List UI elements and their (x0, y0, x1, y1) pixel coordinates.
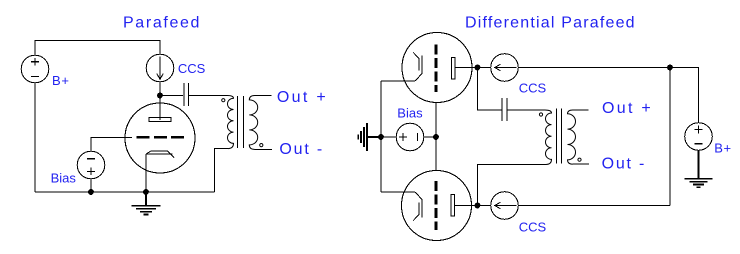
svg-text:Differential Parafeed: Differential Parafeed (465, 15, 636, 32)
V3 envelope (402, 171, 472, 241)
wire: V3 plate to CCS node (455, 205, 491, 207)
svg-text:Bias: Bias (51, 171, 77, 186)
transformer T2 (539, 109, 581, 165)
wire: bias source to grid rail (424, 136, 436, 138)
svg-text:Bias: Bias (397, 106, 423, 121)
V2 grid (dashed) (435, 45, 438, 93)
T1 core (238, 96, 244, 148)
V3 cathode (413, 192, 422, 221)
wire: grid rail junction to V3 (435, 137, 437, 171)
wire: V3 cathode lead to left rail (381, 191, 415, 193)
svg-text:Out +: Out + (277, 89, 328, 106)
T2 primary phase dot (539, 113, 542, 116)
wire: CCS to plate of V1 (159, 82, 161, 120)
T1 secondary winding (249, 96, 257, 150)
V3 grid (dashed) (435, 181, 438, 230)
ground (left circuit) (132, 192, 161, 215)
current source CCS (left) (146, 54, 174, 82)
voltage source Bias (right) (396, 123, 424, 151)
junction: V3 plate node (475, 203, 480, 208)
junction: bias/bottom rail (89, 190, 94, 195)
wire: grid rail V2 to junction (435, 103, 437, 137)
svg-text:Out -: Out - (602, 155, 647, 172)
current source CCS (bottom right) (491, 192, 519, 220)
voltage source B+ (left) (21, 55, 49, 83)
voltage source B+ (right) (685, 123, 713, 151)
wire: bottom rail (left circuit) (35, 191, 215, 193)
junction: V2 plate node (475, 65, 480, 70)
wire: right rail down to bottom CCS (669, 68, 671, 206)
V2 envelope (402, 33, 472, 103)
svg-text:B+: B+ (52, 73, 70, 88)
V1 plate (149, 117, 171, 121)
svg-text:Parafeed: Parafeed (123, 15, 201, 32)
svg-text:CCS: CCS (519, 80, 547, 95)
wire: left cathode rail (right circuit) (380, 81, 382, 192)
wire: ground junction to bias source (381, 136, 396, 138)
svg-text:Out -: Out - (279, 141, 324, 158)
V1 grid (dashed) (136, 136, 184, 139)
voltage source Bias (left) (77, 151, 105, 179)
wire: left rail B+ negative to bottom rail (34, 83, 36, 192)
triode V3 (bottom, right circuit) (402, 171, 472, 241)
triode V1 (125, 103, 195, 173)
wire: top rail B+ to CCS (left circuit) (35, 40, 160, 55)
capacitor C1 (184, 83, 189, 106)
junction: bias/grid rail (434, 135, 439, 140)
wire: V1 cathode to bottom rail (145, 154, 147, 192)
wire: T2 secondary to Out+ (right) (573, 109, 589, 111)
wire: T1 secondary to Out- (left) (255, 148, 273, 150)
wire: CCS top to B+ rail (518, 68, 698, 123)
V2 cathode (413, 52, 422, 81)
wire: V2 cathode lead to left rail (381, 80, 415, 82)
svg-text:CCS: CCS (178, 61, 206, 76)
T1 secondary phase dot (260, 144, 263, 147)
V2 plate (452, 58, 456, 80)
V1 cathode (146, 151, 174, 158)
svg-text:Out +: Out + (602, 100, 653, 117)
T2 secondary winding (568, 110, 576, 164)
wire: capacitor C2 to T2 primary (507, 109, 545, 111)
junction: cathode/ground node (144, 190, 149, 195)
T1 primary phase dot (222, 99, 225, 102)
V1 envelope (125, 103, 195, 173)
wire: T2 primary bottom to V3 plate node (478, 165, 547, 206)
wire: bottom rail riser to T1 primary bottom (215, 149, 229, 192)
V3 plate (451, 195, 455, 217)
junction: ground/cathode rail (379, 135, 384, 140)
T2 primary winding (545, 110, 552, 165)
wire: plate node to capacitor C1 (160, 95, 183, 97)
ground (bias, rotated left) (358, 123, 378, 151)
wire: V2 plate to CCS node (455, 67, 491, 69)
T2 secondary phase dot (578, 158, 581, 161)
junction: plate node (left) (158, 93, 163, 98)
wire: bias source to bottom rail (90, 179, 92, 192)
T2 core (557, 109, 562, 164)
wire: V2 plate node down to capacitor C2 (478, 68, 502, 111)
wire: bottom CCS to right rail (518, 205, 670, 207)
svg-text:CCS: CCS (519, 219, 547, 234)
wire: T1 secondary to Out+ (left) (255, 95, 272, 97)
current source CCS (top right) (491, 54, 519, 82)
T1 primary winding (228, 96, 234, 149)
triode V2 (top, right circuit) (402, 33, 472, 103)
wire: capacitor C1 to transformer T1 primary (188, 95, 228, 97)
transformer T1 (222, 96, 263, 150)
wire: V1 grid to bias source (91, 138, 132, 152)
ground (below B+, right) (685, 150, 713, 187)
junction: B+ rail top (668, 65, 673, 70)
svg-text:B+: B+ (714, 141, 732, 156)
wire: T2 secondary to Out- (right) (573, 163, 590, 165)
capacitor C2 (502, 98, 507, 121)
